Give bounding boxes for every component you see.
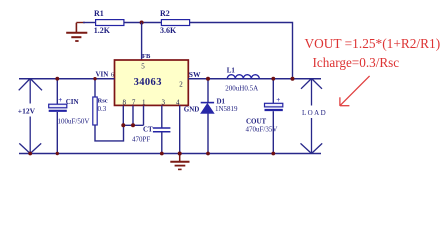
capacitor COUT bbox=[272, 79, 274, 104]
node pin8 junction bbox=[121, 123, 125, 127]
svg-text:VIN: VIN bbox=[96, 70, 109, 78]
svg-text:1N5819: 1N5819 bbox=[215, 105, 238, 113]
svg-text:470uF/35V: 470uF/35V bbox=[246, 125, 278, 133]
wire FB junction down to pin 5 bbox=[141, 23, 143, 61]
node junction COUT / ground rail bbox=[271, 152, 275, 156]
svg-text:1.2K: 1.2K bbox=[94, 26, 111, 35]
wire VIN rail bbox=[19, 78, 115, 80]
node junction D1 / SW rail bbox=[206, 77, 210, 81]
svg-text:200uH0.5A: 200uH0.5A bbox=[225, 84, 258, 92]
annotation red arrow bbox=[340, 76, 370, 106]
svg-text:COUT: COUT bbox=[246, 117, 267, 125]
wire pin 1 bbox=[143, 106, 145, 126]
ground GND2 (bottom) bbox=[170, 154, 189, 170]
capacitor CIN bbox=[56, 79, 58, 105]
svg-text:+: + bbox=[58, 96, 62, 104]
node junction CT / ground rail bbox=[160, 152, 164, 156]
svg-text:R2: R2 bbox=[160, 9, 170, 18]
wire ground rail bbox=[19, 153, 321, 155]
wire pin 4 to ground rail bbox=[179, 106, 181, 154]
node junction feedback branch / SW rail bbox=[291, 77, 295, 81]
wire Rsc bottom to pins 8/7 bus bbox=[95, 125, 124, 141]
capacitor CT bbox=[161, 106, 163, 129]
svg-text:34063: 34063 bbox=[134, 77, 162, 88]
connector LOAD bbox=[301, 79, 323, 154]
svg-text:+12V: +12V bbox=[18, 107, 36, 116]
node pin7 junction bbox=[131, 123, 135, 127]
node junction Rsc / VIN rail bbox=[93, 77, 96, 80]
svg-text:8: 8 bbox=[123, 98, 127, 106]
resistor R1 bbox=[96, 20, 124, 26]
wire R2 to right corner then down to output rail bbox=[190, 23, 293, 79]
svg-text:Rsc: Rsc bbox=[98, 98, 108, 105]
svg-text:7: 7 bbox=[132, 98, 136, 106]
svg-text:LOAD: LOAD bbox=[302, 109, 327, 117]
node junction +12V return / ground rail bbox=[28, 152, 32, 156]
wire ground to R1 bbox=[83, 22, 96, 24]
wire SW rail bbox=[188, 78, 321, 80]
op IC U1 34063 bbox=[115, 60, 189, 105]
diode D1 1N5819 bbox=[207, 79, 209, 103]
svg-text:Icharge=0.3/Rsc: Icharge=0.3/Rsc bbox=[313, 55, 400, 70]
node junction CIN / VIN rail bbox=[55, 77, 59, 81]
node FB junction (R1/R2) bbox=[140, 21, 144, 25]
resistor R2 bbox=[161, 20, 189, 26]
svg-text:1: 1 bbox=[142, 98, 146, 106]
svg-text:100uF/50V: 100uF/50V bbox=[58, 118, 90, 126]
svg-text:470PF: 470PF bbox=[132, 135, 150, 143]
svg-text:5: 5 bbox=[141, 62, 145, 70]
node junction CIN / ground rail bbox=[56, 152, 59, 155]
svg-text:CIN: CIN bbox=[66, 98, 79, 106]
inductor L1 bbox=[227, 75, 259, 79]
svg-text:SW: SW bbox=[189, 70, 201, 79]
wire pin 8 bbox=[122, 106, 124, 126]
wire R1 to R2 bbox=[124, 22, 161, 24]
svg-text:+: + bbox=[276, 96, 280, 104]
svg-text:0.3: 0.3 bbox=[98, 105, 107, 113]
wire pin 7 bbox=[132, 106, 134, 126]
node junction D1 / ground rail bbox=[206, 152, 210, 156]
svg-text:2: 2 bbox=[179, 80, 183, 88]
svg-text:3: 3 bbox=[162, 98, 166, 106]
svg-text:CT: CT bbox=[143, 125, 153, 133]
svg-text:R1: R1 bbox=[94, 9, 104, 18]
wire bus pins 8-7-1 bbox=[123, 124, 143, 126]
node junction COUT / SW rail bbox=[271, 77, 275, 81]
ground GND1 (top-left, at R1) bbox=[66, 23, 87, 42]
connector +12V input bbox=[19, 79, 42, 154]
svg-text:4: 4 bbox=[176, 98, 180, 106]
resistor Rsc bbox=[94, 79, 96, 97]
svg-text:GND: GND bbox=[184, 106, 200, 114]
svg-text:3.6K: 3.6K bbox=[160, 26, 177, 35]
node junction pin4 / ground rail bbox=[178, 152, 182, 156]
svg-text:VOUT =1.25*(1+R2/R1): VOUT =1.25*(1+R2/R1) bbox=[305, 36, 441, 51]
svg-text:L1: L1 bbox=[227, 67, 236, 75]
